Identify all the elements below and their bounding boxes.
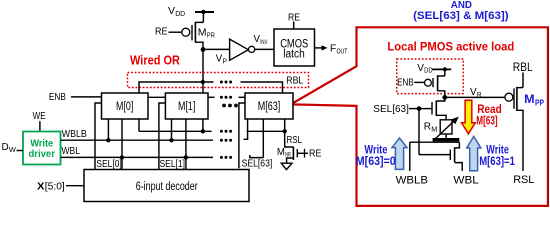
svg-text:RBL: RBL <box>513 62 534 74</box>
svg-text:Write: Write <box>364 145 387 157</box>
svg-text:P: P <box>223 56 228 65</box>
svg-text:WBL: WBL <box>453 175 478 187</box>
svg-text:INV: INV <box>260 39 268 46</box>
svg-text:M[63]=0: M[63]=0 <box>356 156 396 168</box>
svg-text:W: W <box>9 145 17 154</box>
svg-text:6-input decoder: 6-input decoder <box>136 181 198 193</box>
svg-text:Read: Read <box>477 104 501 116</box>
svg-text:M[63]=1: M[63]=1 <box>479 156 515 168</box>
svg-text:DD: DD <box>424 66 433 75</box>
svg-text:OUT: OUT <box>337 46 348 55</box>
svg-text:M[1]: M[1] <box>178 101 195 113</box>
svg-text:latch: latch <box>283 49 305 61</box>
svg-text:ENB: ENB <box>397 77 414 89</box>
svg-text:M[63]: M[63] <box>476 115 497 127</box>
svg-text:SEL[1]: SEL[1] <box>160 158 186 170</box>
svg-text:WBLB: WBLB <box>396 175 428 187</box>
svg-text:RSL: RSL <box>513 174 534 186</box>
svg-text:M: M <box>431 125 437 134</box>
svg-text:WBL: WBL <box>62 145 81 157</box>
svg-text:R: R <box>477 90 482 99</box>
svg-text:RSL: RSL <box>287 134 303 146</box>
svg-text:SEL[0]: SEL[0] <box>96 158 122 170</box>
svg-text:SEL[63]: SEL[63] <box>373 103 409 115</box>
svg-text:[5:0]: [5:0] <box>45 180 65 192</box>
svg-text:PR: PR <box>207 30 215 39</box>
svg-text:WBLB: WBLB <box>62 128 87 140</box>
svg-text:SEL[63]: SEL[63] <box>242 158 273 170</box>
svg-text:RE: RE <box>155 25 168 37</box>
svg-text:DD: DD <box>175 9 186 18</box>
svg-text:WE: WE <box>33 110 46 122</box>
svg-text:(SEL[63] & M[63]): (SEL[63] & M[63]) <box>413 10 509 22</box>
svg-text:driver: driver <box>28 148 55 160</box>
svg-text:X: X <box>37 180 45 192</box>
svg-text:Local PMOS active load: Local PMOS active load <box>387 39 514 53</box>
svg-text:Wired OR: Wired OR <box>130 53 180 67</box>
svg-text:M[63]: M[63] <box>258 101 281 113</box>
svg-text:M: M <box>277 146 285 158</box>
svg-text:ENB: ENB <box>49 91 66 103</box>
svg-text:F: F <box>330 42 336 54</box>
svg-text:RE: RE <box>309 148 322 160</box>
svg-text:Write: Write <box>486 145 509 157</box>
svg-text:D: D <box>2 142 9 153</box>
svg-text:RBL: RBL <box>286 74 303 86</box>
svg-text:PP: PP <box>535 97 544 107</box>
svg-text:M[0]: M[0] <box>116 101 133 113</box>
svg-text:M: M <box>524 92 535 106</box>
svg-text:M: M <box>198 26 207 38</box>
